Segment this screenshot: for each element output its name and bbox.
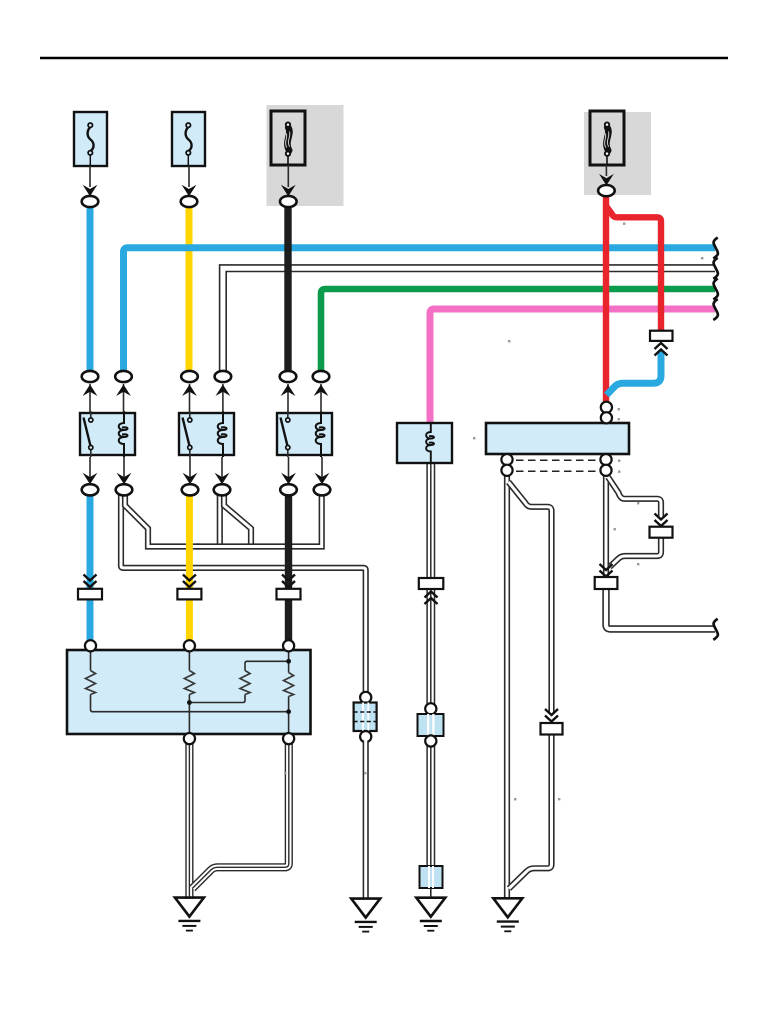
in-line connector D [418,714,444,736]
pin circle junction out R2 [600,465,611,476]
connector B5 [280,371,297,382]
continuation squiggle green [713,279,718,300]
resistor lead 1 [90,651,92,671]
connector A4 [598,185,615,196]
wire pair branch to joint connector 5 [509,482,552,712]
pin circle junction out L2 [501,465,512,476]
connector C4 [214,484,231,495]
fuse F3 (cigarette lighter) [271,111,305,165]
relay R1 (blower) [80,411,135,457]
wire pair junction box left to ground [504,474,510,899]
pin lead connector C6 [321,457,323,478]
ground G2 (connector block) [351,899,380,932]
pin circle block top [360,692,371,703]
wire blue from fuse1 to relay1 [87,205,94,373]
wire black from lighter fuse to relay3 [284,205,291,373]
wire triple resistor box left ground [185,743,193,899]
pin circle black into resistor box [283,640,294,651]
multi-pin connector block [354,703,377,732]
splice arrows blue [84,575,97,588]
connector B3 [181,371,198,382]
pin lead connector B2 [123,384,125,412]
junction dot R4 top [286,659,291,664]
connector C3 [182,484,199,495]
wire pink horizontal bus to blower coil [430,309,715,423]
blower motor coil box [397,423,452,463]
arrow up into connector B3 [182,385,197,397]
resistor lead 2 down [188,695,190,740]
arrow down into connector C6 [315,473,330,485]
coil symbol [426,424,434,462]
wire red main feed down to junction box [603,194,609,404]
ground G1 (resistor box) [175,898,204,931]
relay R3 [277,411,332,457]
continuation squiggle bottom right [713,619,718,640]
pin lead connector B4 [222,384,224,412]
ground G3 (blower) [416,898,445,931]
pin circle yellow into resistor box [184,640,195,651]
splice arrows black [282,575,295,588]
reference marks [623,223,625,225]
wire red branch to joint connector [606,206,661,332]
pin lead connector C5 [288,457,290,478]
ground G4 (junction box) [493,898,522,931]
arrow into connector A4 [599,174,614,186]
splice arrows jc5 [545,709,558,722]
joint connector red-blue [650,331,673,341]
joint connector blower [419,578,444,589]
junction dot R4 bottom [286,709,291,714]
arrow up into connector B6 [314,385,329,397]
arrow up into connector B5 [281,385,296,397]
arrow up into connector B2 [116,385,131,397]
connector B6 [313,371,330,382]
arrow down into connector C2 [117,473,132,485]
pin lead connector C3 [189,457,191,478]
splice arrows up red-blue [655,343,668,356]
wire yellow relay2 to resistor box [186,494,193,646]
fuse F2 [172,112,205,166]
arrow down into connector C1 [83,473,98,485]
link R3-R4 top [245,661,288,670]
wire pair relay2 coil drop [217,494,223,547]
gray shading behind rear heater [584,112,651,195]
wire pair to right squiggle exit [606,588,715,629]
gray shading behind cigarette lighter [267,105,344,206]
wire single line to ground [430,887,432,899]
pin lead connector C1 [89,457,91,478]
arrow down into connector C5 [281,473,296,485]
connector A2 [181,196,198,207]
resistor lead 2 [188,651,190,671]
pin circle resistor box out right [283,733,294,744]
internal dashed links [516,460,597,471]
wire triple resistor box right to ground [193,743,289,888]
wire fuse1 lead [89,166,91,187]
wire blue from joint connector to junction box [607,351,662,395]
joint connector jc5 [541,723,563,735]
pin lead connector B3 [189,384,191,412]
connector B2 [115,371,132,382]
fuse F1 [74,112,107,166]
relay R2 [179,411,234,457]
wire pair coil bus to relay3 [196,494,322,547]
resistor lead 4 down [288,697,290,740]
connector C1 [82,484,99,495]
pin circle blue into resistor box [85,640,96,651]
connector B1 [82,371,99,382]
resistor R-1 [86,671,96,695]
wire black relay3 to resistor box [285,494,292,646]
connector B4 [215,371,232,382]
wire green horizontal bus to relay3 coil [321,289,715,371]
arrow up into connector B4 [216,385,231,397]
wire triple connector to lower connector [426,745,435,866]
link R2-R3 [189,695,245,703]
fusible link (heater) [590,111,624,165]
blower resistor box [67,650,311,734]
joint connector yellow [177,589,201,600]
connector A3 [280,196,297,207]
pin lead connector C4 [221,457,223,478]
splice arrows jc2 [655,514,668,527]
splice arrows jc3 [600,564,613,577]
resistor R-3 [240,671,250,695]
connector C2 [116,484,133,495]
wire blue horizontal bus to relay1 coil [124,248,716,371]
in-line connector E [420,866,443,888]
pin lead connector B6 [320,384,322,412]
pin lead connector B5 [287,384,289,412]
pin lead connector C2 [123,457,125,478]
resistor R-4 [284,673,294,697]
pin circle resistor box out left [184,733,195,744]
continuation squiggle pink [713,299,718,320]
wire blue relay1 to resistor box [87,494,94,646]
pin circle junction out R1 [600,454,611,465]
resistor lead 4 [288,651,290,673]
joint connector jc2 [650,527,673,538]
arrow into connector A1 [83,185,98,197]
junction dot R2 [187,700,192,705]
continuation squiggle blue [713,238,718,259]
junction box [486,423,629,454]
joint connector blue [78,589,102,600]
wire pair junction box to joint connector 3 [603,474,609,578]
wire pair relay2 coil jog [224,494,251,547]
connector C5 [280,484,297,495]
wire yellow from fuse2 to relay2 [186,205,193,373]
arrow down into connector C4 [215,473,230,485]
arrow into connector A3 [281,185,296,197]
joint connector jc3 [595,577,618,589]
wire pair branch to joint connector 2 [608,477,661,517]
pin circle red feed lower [601,412,612,423]
splice arrows yellow [183,575,196,588]
top horizontal rule [40,57,728,60]
resistor bottom bus [91,695,289,712]
splice arrows up blower [425,592,438,605]
connector C6 [314,484,331,495]
pin circle block bottom [360,731,371,742]
pin circle junction out L1 [501,454,512,465]
wire pair relay1 to center connector block [121,494,366,692]
wire triple blower coil to joint connector 4 [426,463,435,579]
arrow into connector A2 [182,185,197,197]
wire pair relay1 coil jog [125,494,200,547]
pin lead connector B1 [89,384,91,412]
pin circle connector D bottom [425,735,436,746]
wire pair joint connector 2 return [610,537,662,567]
resistor R-2 [184,671,194,695]
wire fuse2 lead [188,166,190,187]
arrow up into connector B1 [83,385,98,397]
wire pair block to ground [363,741,369,899]
joint connector black [277,589,301,600]
wire pair joint connector 5 to ground [509,735,552,889]
connector A1 [82,196,99,207]
wire shielded pair horizontal bus to relay2 coil [223,268,715,375]
pin circle red feed upper [601,402,612,413]
arrow down into connector C3 [183,473,198,485]
wire fuse3 lead [287,165,289,187]
wire triple joint connector 4 to connector [426,589,435,704]
wire fusible link lead [605,165,607,176]
continuation squiggle pair [713,258,718,279]
pin circle connector D top [425,703,436,714]
